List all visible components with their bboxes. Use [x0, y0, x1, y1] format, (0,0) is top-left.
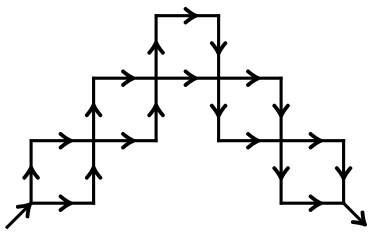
wire: entry diagonal at bottom-left	[7, 205, 30, 228]
arrowhead: entry arrow tip at bottom-left corner	[18, 199, 35, 216]
wire: bottom edge of square E (y=202.5)	[281, 202, 344, 205]
arrowhead: right, bottom edge of A	[61, 196, 71, 210]
arrowhead: right, bottom edge of D	[248, 134, 258, 148]
arrowhead: up, right edge of B	[149, 105, 163, 115]
wire: top edge of square C (y=15)	[156, 14, 219, 17]
arrowhead: down, right edge of C	[212, 43, 226, 53]
wire: row-2 left horizontal, A top / B bottom (y=140)	[31, 139, 156, 142]
wire: exit diagonal at bottom-right	[344, 203, 364, 223]
wire: vertical x=280.5, right of D and left of E	[280, 78, 283, 203]
arrowhead: down, right edge of D	[274, 106, 288, 116]
arrowhead: right, top edge of A	[61, 134, 71, 148]
wire: vertical x=93, left of B and right of A	[92, 78, 95, 203]
arrowhead: right, top edge of B	[123, 71, 133, 85]
arrowhead: right, top edge of C	[186, 9, 196, 23]
wire: bottom edge of square A (y=202.5)	[31, 202, 94, 205]
arrowhead: right, bottom edge of E	[311, 196, 321, 210]
wire: vertical x=218, right of C and left of D	[217, 16, 220, 141]
arrowhead: exit arrow tip at bottom-right	[353, 212, 370, 229]
wire: vertical x=155.5, left of C and right of B	[155, 16, 158, 141]
arrowhead: down, left edge of D	[212, 106, 226, 116]
arrowhead: up, left edge of A	[24, 167, 38, 177]
arrowhead: right, bottom edge of C	[186, 71, 196, 85]
arrowhead: right, top edge of D	[248, 71, 258, 85]
wire: left edge of square A (x=30.5)	[30, 141, 33, 204]
arrowhead: up, right edge of A	[87, 167, 101, 177]
arrowhead: down, right edge of E	[337, 168, 351, 178]
wire: row-1 horizontal across B, C bottom, D top (y=77.5)	[94, 77, 282, 80]
arrowhead: up, left edge of C	[149, 42, 163, 52]
wire: row-2 right horizontal, D bottom / E top (y=140)	[219, 139, 344, 142]
arrowhead: right, bottom edge of B	[123, 134, 133, 148]
arrowhead: down, left edge of E	[274, 168, 288, 178]
wire: right edge of square E (x=343)	[342, 141, 345, 204]
arrowhead: up, left edge of B	[87, 105, 101, 115]
arrowhead: right, top edge of E	[311, 134, 321, 148]
